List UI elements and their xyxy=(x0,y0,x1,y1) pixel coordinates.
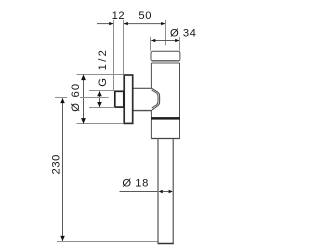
flush pipe bottom cap xyxy=(158,243,174,245)
valve tube right edge xyxy=(179,63,181,139)
dimension line Ø60 xyxy=(83,75,85,124)
valve tube left edge middle xyxy=(150,110,152,117)
dimension line 12/50 xyxy=(97,23,165,25)
extension line G1/2 bottom xyxy=(89,107,115,109)
valve body joint band xyxy=(151,117,180,120)
arrowhead 230 up xyxy=(60,98,65,103)
cone top line xyxy=(133,87,152,89)
arrowhead Ø34 right xyxy=(175,39,179,42)
extension line Ø34 right xyxy=(179,37,181,51)
inlet axis line left segment xyxy=(55,97,67,99)
svg-text:Ø 18: Ø 18 xyxy=(122,177,148,189)
ceramic top line xyxy=(57,241,158,243)
valve cap bottom edge xyxy=(151,60,179,62)
arrowhead G1/2 up xyxy=(97,91,102,96)
arrowhead Ø18 right xyxy=(169,190,173,194)
extension line Ø34 left xyxy=(150,37,152,51)
arrowhead Ø34 left xyxy=(151,39,155,42)
arrowhead Ø60 down xyxy=(81,118,86,124)
dimension line Ø34 xyxy=(151,40,179,42)
cone inner curve xyxy=(152,90,158,108)
flush pipe Ø18 right edge xyxy=(172,139,174,244)
inlet nipple G1/2 xyxy=(115,91,124,107)
svg-text:50: 50 xyxy=(138,10,152,22)
valve tube left edge upper xyxy=(150,63,152,88)
arrowhead G1/2 down xyxy=(97,102,102,107)
arrowhead Ø18 left xyxy=(159,190,163,194)
inlet axis line right segment xyxy=(80,97,109,99)
extension line flange face xyxy=(123,20,125,75)
extension line wall face xyxy=(113,20,115,91)
svg-text:230: 230 xyxy=(51,154,63,174)
wall flange Ø60 xyxy=(124,75,133,123)
cone bottom line xyxy=(133,110,152,112)
extension line Ø60 top xyxy=(77,74,124,76)
cone bulge outline xyxy=(152,88,160,110)
dimension line 230 xyxy=(62,98,64,241)
arrowhead 12 left xyxy=(109,22,113,25)
svg-text:Ø 34: Ø 34 xyxy=(170,28,196,40)
Ø18 arrow connecting line xyxy=(162,191,169,193)
arrowhead Ø60 up xyxy=(81,75,86,81)
leader line Ø18 xyxy=(120,191,159,193)
valve tube left edge lower xyxy=(150,120,152,139)
extension line Ø60 bottom xyxy=(77,123,124,125)
extension line G1/2 top xyxy=(89,90,115,92)
dimension line G1/2 xyxy=(99,91,101,107)
arrowhead 50 right xyxy=(161,22,165,25)
extension line tube axis xyxy=(165,20,167,46)
arrowhead 230 down xyxy=(60,236,65,241)
svg-text:G 1/2: G 1/2 xyxy=(97,48,109,87)
valve tube top joint line xyxy=(151,62,179,64)
valve tube bottom line xyxy=(151,138,179,140)
flush pipe Ø18 left edge xyxy=(157,139,159,244)
arrowhead 12/50 middle xyxy=(124,22,128,25)
valve cap xyxy=(151,51,180,61)
